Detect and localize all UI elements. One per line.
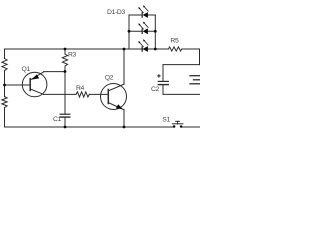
LED D1 cathode bar [142, 12, 143, 18]
wire: bottom rail right of S1 [181, 126, 200, 128]
node: LED left rail / D2 junction [128, 30, 131, 33]
LED D2 row wires y=31.3 [129, 30, 155, 32]
wire: horizontal y=64.6 from C2 to right edge [163, 64, 200, 66]
resistor R1 (upper left, unlabeled) [2, 59, 7, 71]
switch S1 contact bar [172, 123, 183, 125]
transistor Q2 base bar [107, 90, 109, 104]
LED D1 emission arrows [144, 6, 149, 11]
LED D1 row wires y=15 [129, 14, 155, 16]
node: C1 bottom rail junction [64, 126, 67, 129]
node: Q1 base / left rail junction [3, 84, 6, 87]
battery B1 plates (cropped at right edge) [190, 75, 200, 77]
wire: Q2 emitter vertical to bottom rail [123, 110, 125, 127]
LED D2 cathode bar [142, 29, 143, 35]
wire: left rail middle segment [4, 71, 6, 97]
svg-text:Q1: Q1 [22, 66, 31, 73]
svg-text:Q2: Q2 [105, 74, 114, 81]
svg-text:R4: R4 [76, 85, 85, 92]
LED D1 triangle [143, 12, 148, 18]
capacitor C1 bottom lead [64, 117, 66, 127]
transistor Q2 emitter arrowhead (NPN, points out) [116, 104, 123, 109]
wire: Q1 emitter horizontal to node [44, 71, 65, 73]
wire: Q1 collector horizontal to R4 [44, 93, 76, 95]
switch S1 left contact [173, 125, 176, 128]
wire: right edge vertical x=199 [199, 49, 201, 65]
transistor Q2 emitter diagonal [108, 103, 124, 110]
capacitor C2 top lead [162, 65, 164, 82]
transistor Q2 circle [101, 84, 127, 110]
svg-text:D1-D3: D1-D3 [107, 9, 125, 16]
wire: top rail right segment to corner [182, 48, 199, 50]
transistor Q1 emitter diagonal [30, 72, 43, 80]
switch S1 actuator cap [176, 120, 180, 122]
resistor R4 (zigzag horizontal) [76, 92, 89, 97]
resistor R2 (lower left, unlabeled) [2, 97, 7, 108]
capacitor C1 top lead [64, 94, 66, 114]
wire: Q2 collector vertical to top rail [123, 49, 125, 84]
svg-text:S1: S1 [162, 116, 170, 123]
capacitor C1 plates [60, 113, 70, 115]
capacitor C2 bottom lead + wire to right edge y=94.4 [163, 85, 200, 95]
resistor R3 (zigzag vertical) [62, 54, 67, 66]
svg-text:C1: C1 [53, 116, 62, 123]
LED D3 triangle [143, 46, 148, 52]
transistor Q2 collector diagonal [108, 84, 124, 91]
node: Q1 emitter / R3 junction [64, 70, 67, 73]
svg-text:R3: R3 [68, 52, 77, 59]
switch S1 actuator stub [177, 122, 179, 124]
wire: left rail top segment x=4.5 [4, 49, 6, 59]
capacitor C2 plates [158, 80, 168, 82]
node: R3 top junction [64, 48, 67, 51]
resistor R5 (zigzag on top rail) [169, 47, 182, 51]
wire: left rail bottom segment [4, 108, 6, 128]
node: LED right rail / D2 junction [154, 30, 157, 33]
svg-text:C2: C2 [151, 86, 160, 93]
wire: R3 bottom through emitter node to collector-wire cross [64, 67, 66, 94]
wire: Q1 base lead from left rail [5, 84, 31, 86]
wire: top rail left segment y=49 [5, 48, 169, 50]
LED D2 emission arrows [144, 22, 149, 27]
LED D3 cathode bar [142, 46, 143, 52]
LED D3 emission arrows [144, 40, 149, 45]
node: LED right rail / top rail junction [154, 48, 157, 51]
transistor Q1 emitter arrowhead (PNP, points to base) [31, 74, 39, 79]
transistor Q1 base bar [29, 79, 31, 91]
wire: bottom rail left of S1 [5, 126, 174, 128]
transistor Q1 collector diagonal [30, 89, 43, 94]
LED ladder right rail x=155.3 [154, 15, 156, 49]
LED ladder left rail x=129 [128, 15, 130, 49]
capacitor C2 polarity plus sign [157, 74, 160, 77]
node: Q2 collector / top rail junction [123, 48, 126, 51]
transistor Q1 circle [22, 72, 47, 97]
switch S1 right contact [180, 125, 183, 128]
LED D2 triangle [143, 28, 148, 34]
svg-text:R5: R5 [170, 38, 179, 45]
node: Q2 emitter / bottom rail junction [123, 126, 126, 129]
wire: R4 to Q2 base [89, 93, 108, 95]
wire: R3 top lead from top rail [64, 49, 66, 54]
